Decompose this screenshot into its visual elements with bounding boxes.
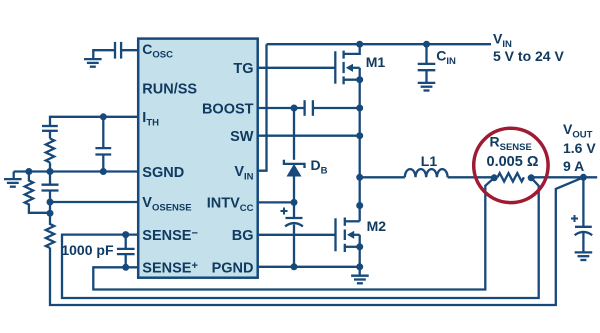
wire input rail xyxy=(267,43,492,45)
wire SENSE- pin xyxy=(62,178,539,298)
capacitor VOSENSE filter xyxy=(42,184,59,186)
node RSENSE right junction xyxy=(528,174,535,181)
plus sign COUT xyxy=(571,215,578,222)
node M2 drain junction xyxy=(356,202,363,209)
wire ITH pin xyxy=(50,117,138,126)
capacitor COSC plates xyxy=(120,42,122,59)
node RSENSE left junction xyxy=(491,174,498,181)
svg-text:BG: BG xyxy=(232,228,254,244)
capacitor CB boost plates xyxy=(303,100,305,116)
wire SGND to ground xyxy=(13,172,15,180)
wire SW pin xyxy=(258,135,360,137)
wire INTVCC pin xyxy=(258,201,294,203)
wire M1 source chain xyxy=(359,68,361,80)
resistor RSENSE zigzag xyxy=(498,173,524,181)
node VOUT junction xyxy=(580,174,587,181)
svg-text:SENSE+: SENSE+ xyxy=(142,260,198,277)
wire SENSE+ pin xyxy=(93,178,494,290)
transistor M1 xyxy=(335,51,359,85)
capacitor C ITH series xyxy=(42,125,58,127)
node SW junction xyxy=(356,132,363,139)
svg-text:1.6 V: 1.6 V xyxy=(563,140,596,156)
wire DB branch xyxy=(293,108,295,160)
svg-text:SENSE−: SENSE− xyxy=(142,228,198,245)
svg-text:9 A: 9 A xyxy=(563,158,584,174)
wire M2 drain stub xyxy=(345,220,360,222)
capacitor CIN plates xyxy=(418,63,436,65)
node divider junction xyxy=(47,210,54,217)
node PGND cap junction xyxy=(291,263,298,270)
svg-text:TG: TG xyxy=(233,61,253,77)
svg-text:SW: SW xyxy=(230,129,254,145)
svg-text:M1: M1 xyxy=(366,54,386,70)
svg-text:RUN/SS: RUN/SS xyxy=(142,82,197,98)
svg-text:DB: DB xyxy=(311,157,328,177)
node L1 junction xyxy=(356,174,363,181)
IC U1 body xyxy=(138,39,258,278)
wire TG pin xyxy=(258,67,336,69)
wire COSC pin xyxy=(121,49,138,51)
svg-text:M2: M2 xyxy=(367,218,387,234)
node PGND junction xyxy=(356,263,363,270)
svg-text:L1: L1 xyxy=(421,153,438,169)
capacitor COUT plates xyxy=(575,226,592,228)
capacitor INTVCC electrolytic xyxy=(285,218,303,226)
svg-text:BOOST: BOOST xyxy=(202,102,254,118)
wire VIN pin riser xyxy=(258,44,267,171)
node SGND ground junction xyxy=(25,168,32,175)
wire BG pin xyxy=(258,234,336,236)
svg-text:RSENSE: RSENSE xyxy=(490,134,532,154)
svg-text:CIN: CIN xyxy=(436,48,456,68)
node SGND cap junction xyxy=(47,168,54,175)
wire INTVCC cap down xyxy=(293,202,295,218)
wire feedback bottom xyxy=(50,177,583,305)
node INTVCC junction xyxy=(291,199,298,206)
wire BOOST pin xyxy=(258,107,305,109)
svg-text:1000 pF: 1000 pF xyxy=(61,242,114,258)
node SENSE- cap junction xyxy=(122,231,129,238)
svg-text:5 V to 24 V: 5 V to 24 V xyxy=(493,48,564,64)
wire ITH branch down xyxy=(102,117,104,148)
svg-text:PGND: PGND xyxy=(212,261,254,277)
ground SGND xyxy=(4,179,22,187)
node VOSENSE junction xyxy=(47,199,54,206)
capacitor 1000pF plates xyxy=(117,248,135,250)
wire PGND pin xyxy=(258,266,360,268)
ground CIN xyxy=(418,83,436,91)
wire M2 source chain xyxy=(359,235,361,247)
wire CIN drop xyxy=(425,44,427,64)
resistor divider lower xyxy=(46,213,54,248)
capacitor ITH parallel xyxy=(95,147,111,149)
wire output line xyxy=(360,176,405,178)
wire COSC cap to ground xyxy=(93,50,115,59)
wire VOUT cap drop xyxy=(582,177,584,227)
svg-text:VOUT: VOUT xyxy=(563,121,593,141)
node M1 source junction xyxy=(356,76,363,83)
ground COUT xyxy=(575,252,593,260)
wire SGND pin xyxy=(14,170,139,172)
ground COSC xyxy=(84,59,102,67)
wire VOSENSE pin xyxy=(50,201,138,203)
node ITH junction xyxy=(100,113,107,120)
node SENSE+ cap junction xyxy=(122,264,129,271)
svg-text:0.005 Ω: 0.005 Ω xyxy=(487,154,539,170)
wire M1 drain riser xyxy=(344,44,360,54)
node BOOST diode junction xyxy=(291,105,298,112)
node SGND branch junction xyxy=(100,168,107,175)
ground M2 source xyxy=(351,276,369,284)
diode DB zener xyxy=(284,160,305,168)
highlight circle RSENSE xyxy=(474,128,548,202)
node M1 drain rail junction xyxy=(356,41,363,48)
svg-text:VIN: VIN xyxy=(493,30,512,50)
transistor M2 xyxy=(336,218,360,253)
node M2 source junction xyxy=(356,243,363,250)
inductor L1 xyxy=(405,169,448,177)
node CIN rail junction xyxy=(423,41,430,48)
plus sign INTVCC cap xyxy=(281,208,288,215)
resistor R ITH xyxy=(46,139,54,163)
svg-text:SGND: SGND xyxy=(142,165,184,181)
node BOOST cap junction xyxy=(356,105,363,112)
resistor divider upper xyxy=(25,172,50,213)
